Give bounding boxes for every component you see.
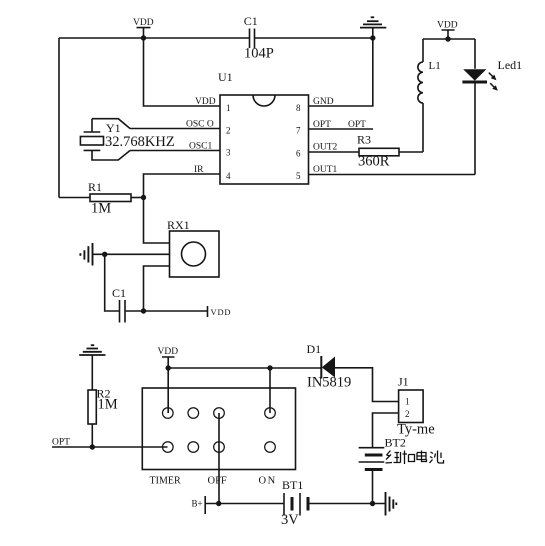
net label B+ (192, 496, 206, 514)
svg-text:L1: L1 (429, 60, 441, 72)
crystal Y1 (80, 119, 174, 160)
svg-text:VDD: VDD (437, 21, 458, 31)
svg-text:1M: 1M (91, 201, 111, 217)
svg-text:Y1: Y1 (106, 121, 121, 135)
resistor R3 (309, 133, 424, 170)
VDD power symbol top-left (133, 18, 154, 38)
svg-text:OFF: OFF (208, 476, 227, 487)
svg-text:R3: R3 (357, 133, 371, 147)
power ground (left of RX1) (80, 243, 92, 266)
wire BT2 to bottom rail (372, 470, 374, 504)
wire pin 3 OSC1 (130, 150, 220, 152)
svg-text:3V: 3V (281, 512, 299, 528)
wire B+ to BT1 (205, 503, 284, 505)
capacitor C1 (top) (244, 14, 274, 62)
svg-text:4: 4 (226, 171, 231, 181)
svg-text:BT2: BT2 (385, 436, 406, 450)
wire ON drop (269, 368, 271, 413)
battery BT1 (281, 478, 308, 528)
svg-text:VDD: VDD (211, 307, 232, 317)
svg-text:VDD: VDD (133, 18, 154, 28)
svg-text:B+: B+ (192, 499, 203, 509)
svg-text:3: 3 (226, 148, 231, 158)
node junction VDD right (445, 36, 450, 41)
svg-text:6: 6 (296, 149, 301, 159)
wire down to C1 (105, 254, 120, 311)
wire pin 7 OPT stub (309, 128, 374, 130)
wire pin 2 OSC O (130, 128, 220, 130)
IC U1 (186, 70, 338, 184)
node junction OFF / B+ wire (216, 501, 221, 506)
node junction VDD/pin1 on top rail (141, 35, 146, 40)
svg-text:104P: 104P (244, 46, 274, 62)
power ground (bottom right) (386, 492, 397, 516)
svg-text:GND: GND (313, 97, 334, 107)
wire TIMER drop (167, 368, 169, 413)
resistor R1 (59, 180, 144, 217)
svg-text:32.768KHZ: 32.768KHZ (105, 134, 175, 150)
wire top rail left of C1 (59, 37, 250, 39)
wire diode to corner and J1 pin1 (335, 368, 399, 402)
battery BT2 (359, 436, 406, 470)
svg-text:7: 7 (296, 126, 301, 136)
svg-text:VDD: VDD (158, 347, 179, 357)
VDD power symbol (right of lower C1) (208, 306, 232, 317)
receiver RX1 (167, 218, 219, 277)
inductor L1 (418, 39, 441, 152)
svg-text:OPT: OPT (348, 120, 366, 130)
svg-text:J1: J1 (398, 375, 409, 389)
diode D1 (307, 342, 352, 391)
label 纽扣电池 (button battery) drawn strokes (386, 451, 444, 465)
svg-text:R1: R1 (88, 180, 102, 194)
wire VDD rail to diode (168, 367, 321, 369)
svg-text:1M: 1M (98, 397, 118, 413)
svg-text:OUT1: OUT1 (313, 165, 338, 175)
earth ground (bottom left) (79, 345, 105, 390)
node junction BT2 / bottom rail (370, 501, 375, 506)
svg-text:Led1: Led1 (498, 58, 523, 72)
svg-text:ON: ON (259, 476, 277, 487)
wire ground to RX1 (93, 253, 170, 255)
svg-text:C1: C1 (244, 14, 258, 28)
svg-text:8: 8 (296, 103, 301, 113)
earth ground (top) (360, 17, 386, 38)
VDD power symbol (top right) (437, 21, 458, 40)
svg-text:360R: 360R (358, 154, 390, 170)
wire J1 pin2 down to BT2 (373, 413, 399, 448)
svg-text:D1: D1 (307, 342, 322, 356)
switch box S1 (142, 388, 295, 487)
wire OFF column down to B+ wire (218, 413, 220, 504)
svg-text:5: 5 (296, 171, 301, 181)
connector J1 (397, 375, 435, 438)
wire pin 5 OUT1 (309, 174, 476, 176)
capacitor C1 (lower) (112, 286, 126, 323)
svg-text:IN5819: IN5819 (307, 375, 351, 391)
svg-text:1: 1 (405, 397, 410, 407)
node junction ground wire / C1 branch (102, 252, 107, 257)
svg-text:U1: U1 (218, 70, 233, 84)
svg-text:OPT: OPT (52, 438, 70, 448)
svg-text:RX1: RX1 (167, 218, 190, 232)
LED Led1 (462, 39, 522, 175)
node junction top rail / GND drop (370, 35, 375, 40)
svg-text:1: 1 (226, 103, 231, 113)
svg-text:2: 2 (405, 409, 410, 419)
wire GND drop to pin 8 (309, 38, 373, 106)
svg-text:BT1: BT1 (282, 478, 303, 492)
svg-text:C1: C1 (112, 286, 126, 300)
node junction R2 / OPT (90, 444, 95, 449)
VDD power symbol (above switch) (158, 347, 179, 368)
svg-text:VDD: VDD (195, 97, 216, 107)
wire top rail right of C1 (255, 37, 373, 39)
svg-text:TIMER: TIMER (150, 476, 181, 487)
node junction R1 / IR (141, 195, 146, 200)
svg-text:OUT2: OUT2 (313, 143, 338, 153)
svg-text:2: 2 (226, 126, 231, 136)
wire pin 4 IR down to RX1 (144, 174, 221, 243)
wire OPT to switch (52, 446, 168, 448)
wire VDD to pin 1 (144, 38, 221, 106)
resistor R2 (88, 387, 118, 448)
wire C1 to VDD and RX1 (125, 310, 208, 312)
wire BT1 to ground (308, 503, 386, 505)
wire top right rail (423, 38, 475, 40)
wire left bus vertical (58, 38, 60, 198)
